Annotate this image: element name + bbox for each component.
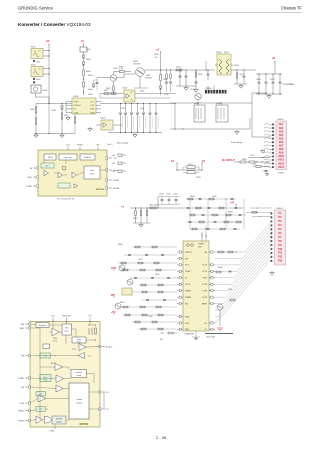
- svg-text:MP2560: MP2560: [96, 189, 105, 191]
- svg-text:Front Stage: Front Stage: [231, 141, 243, 144]
- svg-text:+5V: +5V: [111, 311, 116, 314]
- svg-text:T605: T605: [190, 89, 194, 91]
- svg-text:DC-T Konverter 5V: DC-T Konverter 5V: [57, 197, 75, 200]
- svg-text:P13: P13: [278, 260, 283, 263]
- svg-text:IC605: IC605: [216, 52, 222, 54]
- svg-text:Chassis TF: Chassis TF: [281, 6, 303, 11]
- svg-text:UVLO: UVLO: [45, 166, 50, 168]
- svg-text:COMP: COMP: [26, 186, 33, 188]
- svg-text:SW OCP: SW OCP: [56, 418, 62, 420]
- svg-text:CLMP: CLMP: [185, 271, 191, 273]
- svg-text:Enable: Enable: [106, 347, 113, 349]
- svg-text:IN, DATA-P: IN, DATA-P: [222, 159, 235, 162]
- svg-text:LDO-SS: LDO-SS: [50, 363, 56, 365]
- svg-text:VCC: VCC: [90, 101, 95, 103]
- svg-text:L640 10µH: L640 10µH: [149, 205, 159, 207]
- svg-text:+GND: +GND: [49, 431, 55, 433]
- svg-text:C640: C640: [159, 194, 164, 196]
- svg-text:PIP: PIP: [111, 294, 115, 297]
- svg-text:COM: COM: [74, 112, 79, 114]
- svg-text:R614: R614: [140, 91, 144, 93]
- svg-text:AV5: AV5: [279, 137, 284, 140]
- svg-text:REF2: REF2: [202, 303, 208, 305]
- svg-text:CN603: CN603: [277, 119, 284, 121]
- svg-text:IC603: IC603: [100, 118, 106, 120]
- svg-text:C642: C642: [173, 194, 178, 196]
- svg-text:AV13: AV13: [278, 166, 284, 169]
- svg-text:PGND: PGND: [113, 180, 119, 182]
- svg-text:CN604: CN604: [276, 208, 283, 210]
- svg-text:OCP: OCP: [39, 409, 42, 411]
- svg-text:+8V: +8V: [160, 333, 164, 335]
- svg-text:R640: R640: [218, 267, 223, 269]
- svg-text:TDA93: TDA93: [198, 243, 205, 246]
- svg-text:PGND: PGND: [18, 420, 24, 422]
- svg-text:-12V: -12V: [111, 155, 116, 157]
- svg-text:R690: R690: [190, 196, 195, 198]
- svg-text:GFLIM: GFLIM: [113, 188, 120, 190]
- svg-text:LimF: LimF: [113, 170, 118, 172]
- svg-text:Comp: Comp: [72, 349, 76, 351]
- svg-text:1N4148: 1N4148: [133, 63, 141, 65]
- svg-text:T641: T641: [228, 289, 232, 291]
- svg-text:C641: C641: [121, 108, 125, 110]
- svg-text:Control: Control: [76, 401, 82, 404]
- svg-text:C628: C628: [51, 110, 56, 112]
- svg-text:→ CN605: → CN605: [286, 84, 296, 86]
- svg-text:C630: C630: [256, 79, 261, 81]
- svg-text:AV2: AV2: [279, 127, 284, 130]
- svg-text:1.2V: 1.2V: [88, 356, 91, 358]
- svg-text:MP2580: MP2580: [79, 424, 88, 426]
- svg-text:+B: +B: [272, 57, 275, 60]
- svg-text:TH601: TH601: [42, 90, 47, 92]
- svg-text:02H: 02H: [198, 246, 202, 248]
- svg-text:C651: C651: [138, 259, 143, 261]
- svg-text:CN601: CN601: [205, 88, 212, 90]
- svg-text:FREQ/SET: FREQ/SET: [62, 316, 72, 318]
- svg-text:R620: R620: [30, 109, 35, 111]
- svg-text:IC602: IC602: [122, 88, 128, 90]
- svg-text:+A: +A: [121, 206, 124, 209]
- svg-text:R613: R613: [104, 90, 108, 92]
- svg-text:FREQ: FREQ: [77, 145, 83, 147]
- svg-text:Comp: Comp: [53, 340, 57, 342]
- svg-text:AC: AC: [46, 40, 50, 43]
- svg-text:+5V: +5V: [230, 202, 235, 205]
- svg-text:AV10: AV10: [278, 155, 284, 158]
- svg-text:PWM2: PWM2: [185, 297, 192, 299]
- svg-text:ILIM: ILIM: [20, 403, 24, 405]
- svg-text:STBY: STBY: [74, 101, 80, 103]
- svg-text:R650: R650: [118, 244, 123, 246]
- svg-text:AV8: AV8: [279, 148, 284, 151]
- svg-text:IC604: IC604: [73, 96, 79, 98]
- svg-text:C643: C643: [140, 108, 144, 110]
- svg-text:Logic Comp: Logic Comp: [64, 157, 73, 159]
- svg-text:Konverter / Converter VQX194-0: Konverter / Converter VQX194-03: [18, 22, 91, 27]
- svg-text:R671: R671: [133, 218, 138, 220]
- svg-text:VCC: VCC: [185, 265, 190, 267]
- svg-text:AV4: AV4: [279, 134, 284, 137]
- svg-text:GND: GND: [90, 109, 95, 111]
- svg-text:D605: D605: [154, 54, 159, 56]
- svg-text:C641: C641: [166, 194, 171, 196]
- svg-text:OUT1: OUT1: [185, 284, 191, 286]
- svg-text:C621: C621: [239, 74, 244, 76]
- svg-text:C602: C602: [36, 62, 40, 64]
- svg-text:AV3: AV3: [279, 130, 284, 133]
- svg-text:LOT1: LOT1: [202, 265, 208, 267]
- svg-text:L641 5µH: L641 5µH: [206, 337, 216, 339]
- svg-text:PWM: PWM: [53, 338, 58, 340]
- svg-text:COMP: COMP: [18, 378, 25, 380]
- svg-text:Gate: Gate: [90, 169, 94, 172]
- svg-text:COM: COM: [202, 291, 207, 293]
- svg-text:R622: R622: [198, 74, 203, 76]
- svg-text:C656: C656: [148, 316, 153, 318]
- svg-text:CONTR: CONTR: [74, 105, 82, 107]
- svg-text:C690: C690: [212, 196, 217, 198]
- svg-text:AV11: AV11: [278, 159, 284, 162]
- svg-text:LOT2: LOT2: [202, 271, 208, 273]
- svg-text:AV6: AV6: [279, 141, 284, 144]
- svg-text:Sense: Sense: [77, 341, 81, 343]
- svg-text:AV9: AV9: [279, 152, 284, 155]
- svg-text:Mode: Mode: [44, 379, 48, 381]
- svg-text:+A: +A: [156, 49, 159, 52]
- svg-text:P10: P10: [278, 248, 283, 251]
- svg-text:GRUNDIG Service: GRUNDIG Service: [18, 6, 54, 11]
- svg-text:VIN: VIN: [21, 324, 25, 326]
- svg-text:Back Stage: Back Stage: [117, 142, 129, 145]
- svg-text:R600: R600: [36, 79, 40, 81]
- svg-text:GND: GND: [185, 316, 190, 318]
- svg-text:R601: R601: [86, 71, 92, 73]
- svg-text:VCC: VCC: [66, 145, 71, 147]
- svg-text:AV7: AV7: [279, 145, 284, 148]
- svg-text:AV1: AV1: [279, 123, 284, 126]
- svg-text:C631: C631: [270, 79, 275, 81]
- svg-text:2.2k: 2.2k: [119, 69, 123, 71]
- svg-text:Current: Current: [76, 398, 82, 401]
- svg-text:SEN: SEN: [90, 112, 95, 114]
- svg-text:LOT5: LOT5: [202, 297, 208, 299]
- svg-text:R652: R652: [155, 274, 160, 276]
- svg-text:Feedback: Feedback: [84, 157, 91, 159]
- svg-text:D601: D601: [86, 59, 92, 61]
- svg-text:Tout 5: Tout 5: [107, 143, 113, 146]
- svg-text:P11: P11: [278, 252, 283, 255]
- svg-text:R655: R655: [120, 302, 125, 304]
- svg-text:CN603: CN603: [278, 173, 285, 175]
- svg-text:VPROT: VPROT: [185, 252, 193, 254]
- svg-text:Logic: Logic: [65, 331, 69, 333]
- svg-text:D620: D620: [234, 65, 240, 67]
- svg-text:2 - 38: 2 - 38: [156, 435, 167, 440]
- svg-text:BC846: BC846: [146, 77, 153, 79]
- svg-text:R693: R693: [228, 212, 233, 214]
- svg-text:TDA9302H: TDA9302H: [184, 333, 194, 336]
- svg-text:FREQ: FREQ: [18, 410, 24, 412]
- svg-text:-12V: -12V: [111, 163, 116, 165]
- svg-text:LOT4: LOT4: [202, 284, 208, 286]
- svg-text:PWM1: PWM1: [185, 291, 192, 293]
- svg-text:P12: P12: [278, 256, 283, 259]
- svg-text:Driver: Driver: [90, 173, 95, 176]
- svg-text:D-5V: D-5V: [250, 155, 255, 157]
- svg-text:AV12: AV12: [278, 162, 284, 165]
- svg-text:GND: GND: [19, 328, 24, 330]
